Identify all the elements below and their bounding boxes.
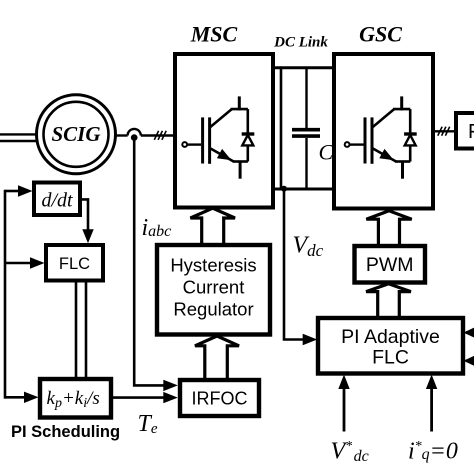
three-phase slashes on grid wire [438,127,450,136]
gate bar right [208,117,211,163]
emitter diagonal [210,148,234,162]
emitter arrowhead [217,149,232,160]
converter GSC box [334,54,433,209]
gate wire [187,143,201,145]
emitter lead [401,162,404,179]
double wire FLC to kp+ki/s (right) [85,281,88,380]
diode D2 cathode bar [404,132,417,135]
emitter diagonal [372,148,396,162]
diode D1 branch lower [247,145,250,161]
diode D2 triangle [405,135,416,146]
wire iabc measurement [134,139,166,385]
box Hysteresis Current Regulator [157,245,270,335]
wire speed to d/dt [5,190,21,193]
arrowhead into IRFOC (upper) [163,380,178,391]
arrowhead into PI box left [303,334,318,345]
svg-text:SCIG: SCIG [51,122,100,146]
gate bar right [371,117,374,163]
svg-text:PI Adaptive: PI Adaptive [341,326,440,348]
speed bus (left vertical) [4,190,7,399]
arrowhead up into PI box [338,375,349,390]
collector top rail [393,108,410,111]
shaft double line (left) [0,134,37,141]
node dot on dc bottom bus [281,186,287,192]
svg-text:MSC: MSC [190,22,238,47]
diode D2 branch upper [409,109,412,134]
capacitor stem upper [305,68,307,128]
svg-text:PI Scheduling: PI Scheduling [11,423,120,441]
diode D1 triangle [242,135,253,146]
capacitor stem lower [305,138,307,189]
dc-link top bus wire [273,66,334,69]
box IRFOC [180,380,259,416]
svg-text:Hysteresis: Hysteresis [170,255,256,276]
gate bar left [201,117,204,163]
box d/dt [34,183,80,216]
svg-text:PWM: PWM [366,254,414,276]
wire Vdc sense [284,189,305,340]
wire SCIG to MSC [114,129,174,136]
gate terminal circle [345,142,350,147]
generator SCIG (double circle) [37,95,116,174]
wire iq*=0 reference (bottom right arrow into PI box) [430,385,433,432]
arrowhead into FLC [30,257,45,268]
diode D2 branch lower [409,145,412,161]
filter box F (clipped at right edge) [456,113,474,149]
converter MSC box [175,54,273,208]
block arrow: Hysteresis to MSC [190,208,235,245]
arrowhead left into PI box (upper) [464,327,474,338]
gate bar left [364,117,367,163]
wire into PI box right side (lower) [466,359,474,362]
wire d/dt to FLC [80,199,88,232]
collector lead [400,96,403,110]
arrowhead left into PI box (lower) [464,355,474,366]
diode D1 branch upper [247,109,250,134]
gate wire [350,143,364,145]
block arrow: IRFOC to Hysteresis [195,336,239,380]
wire GSC to filter [433,130,456,132]
svg-text:kp+ki/s: kp+ki/s [47,388,100,411]
capacitor plate bottom [292,134,320,138]
wire Vdc* reference (bottom left arrow into PI box) [343,385,346,432]
wire into PI box right side (upper) [466,331,474,334]
svg-text:FLC: FLC [59,255,90,273]
arrowhead into d/dt [18,185,33,196]
arrowhead into kp+ki/s [24,392,39,403]
box PI Adaptive FLC [318,318,463,374]
svg-text:DC Link: DC Link [273,35,328,51]
collector diagonal [210,109,232,127]
collector lead [238,96,241,110]
capacitor plate top [292,128,320,132]
svg-text:C: C [319,140,334,165]
svg-text:Regulator: Regulator [173,299,253,320]
arrowhead down into FLC [82,229,93,243]
svg-text:FLC: FLC [372,347,409,369]
IGBT Q2 with antiparallel diode (inside GSC) [345,96,417,178]
arrowhead into IRFOC (lower) [163,392,178,403]
wire kp+ki/s to IRFOC (torque Te) [111,396,166,399]
collector top rail [231,108,248,111]
capacitor C [292,68,320,189]
svg-text:Fi: Fi [468,121,474,143]
svg-text:IRFOC: IRFOC [192,389,248,409]
box FLC [46,245,103,281]
svg-text:d/dt: d/dt [41,190,73,212]
arrowhead up into PI box [426,375,437,390]
emitter bottom rail [233,160,248,163]
dc-link left rail [280,66,283,190]
emitter bottom rail [395,160,410,163]
three-phase slashes on stator wire [154,131,166,140]
box PWM [355,246,426,283]
block arrow: PI FLC to PWM [366,284,411,318]
gate terminal circle [182,142,187,147]
IGBT Q1 with antiparallel diode (inside MSC) [182,96,254,178]
emitter lead [239,162,242,179]
diode D1 cathode bar [242,132,255,135]
svg-text:Current: Current [183,277,245,298]
block arrow: PWM to GSC [366,211,411,246]
box kp+ki/s [40,379,111,418]
collector diagonal [372,109,394,127]
node: stator tap dot [131,134,138,141]
double wire FLC to kp+ki/s (left) [75,281,78,380]
wire speed to FLC [5,262,34,265]
emitter arrowhead [379,149,394,160]
dc-link bottom bus wire [273,188,334,191]
svg-text:GSC: GSC [359,22,402,47]
wire speed to kp+ki/s [5,396,27,399]
